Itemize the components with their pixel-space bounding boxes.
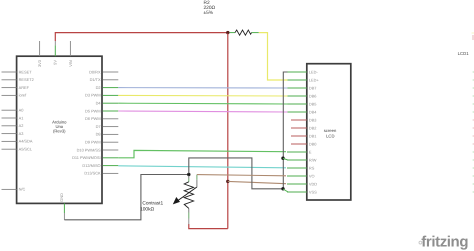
svg-text:E: E — [309, 149, 312, 154]
svg-text:DB7: DB7 — [309, 85, 317, 90]
svg-text:screen: screen — [324, 128, 337, 133]
wiper lead of Contrast1 up to VO wire — [196, 175, 198, 188]
transistor-style wiper arrow of Contrast1 — [173, 187, 197, 204]
wire: grey GND from pot top up/right/down to LCD VSS junction — [189, 158, 283, 189]
wire: short green link junction to R/W pin — [283, 158, 288, 160]
svg-text:AREF: AREF — [19, 85, 30, 90]
svg-text:fritzing: fritzing — [421, 234, 468, 251]
svg-text:D3 PWM: D3 PWM — [85, 93, 101, 98]
svg-text:D4: D4 — [96, 101, 102, 106]
svg-text:VSS: VSS — [309, 189, 317, 194]
pin D8 (Arduino right) — [96, 132, 119, 137]
wire: grey GND from Arduino GND pin to potentiometer top — [64, 175, 187, 220]
wire: green D4 to DB5 — [118, 102, 287, 105]
pin D2 (Arduino right) — [96, 85, 119, 90]
wire: yellow from R2 right terminal down to LCD LED+ — [259, 33, 288, 80]
node E: junction dot GND bus to VSS — [281, 187, 284, 190]
wire: short green link junction to VSS pin — [283, 189, 288, 192]
resistor Contrast1 zigzag body (potentiometer) — [184, 182, 193, 209]
svg-text:RESET2: RESET2 — [19, 77, 34, 82]
svg-text:DB5: DB5 — [309, 101, 317, 106]
svg-text:RESET: RESET — [19, 69, 33, 74]
pin A5/SCL (Arduino left, unconnected) — [2, 147, 33, 152]
pin D9 PWM (Arduino right) — [85, 140, 118, 145]
wire: red 5V from Arduino 5V pin up and right to R2 junction — [55, 33, 227, 41]
svg-text:Contrast1: Contrast1 — [142, 201, 163, 207]
value label R2 220&#937; &#177;5% — [204, 0, 216, 16]
wire: brown from red rail junction to LCD VDD — [228, 181, 286, 183]
svg-text:VIN: VIN — [68, 60, 73, 67]
pin RS (LCD left) — [287, 165, 315, 170]
svg-text:LCD1: LCD1 — [458, 51, 470, 56]
svg-text:D8: D8 — [96, 132, 101, 137]
svg-text:VDD: VDD — [309, 181, 317, 186]
pin VIN (Arduino top, unconnected) — [68, 41, 73, 67]
node D: junction dot GND bus to R/W — [281, 157, 284, 160]
svg-text:±5%: ±5% — [204, 10, 214, 16]
svg-text:D0/RX: D0/RX — [89, 69, 101, 74]
pin A4/SDA (Arduino left, unconnected) — [2, 139, 33, 144]
svg-text:D9 PWM: D9 PWM — [85, 140, 101, 145]
pin E (LCD left) — [287, 149, 312, 154]
svg-text:D6 PWM: D6 PWM — [85, 116, 101, 121]
pin D1/TX (Arduino right) — [90, 77, 119, 82]
node C: junction dot at potentiometer top terminal — [187, 173, 190, 176]
pin A1 (Arduino left, unconnected) — [2, 115, 24, 120]
pin D10 PWM/SS (Arduino right) — [77, 147, 119, 152]
pin A3 (Arduino left, unconnected) — [2, 131, 24, 136]
pin DB4 (LCD left) — [287, 109, 317, 114]
svg-text:LCD: LCD — [326, 134, 334, 139]
resistor Contrast1 bottom lead — [188, 208, 190, 224]
wire: green D11 with jog up to LCD E — [118, 150, 286, 157]
pin RESET2 (Arduino left, unconnected) — [2, 77, 34, 82]
resistor R2 leads (green pin ends) — [230, 32, 259, 34]
wire: yellow D3 to DB6 — [118, 94, 287, 97]
op-amp U1: Arduino Uno (Rev3) body — [17, 56, 102, 203]
svg-text:(Rev3): (Rev3) — [53, 128, 66, 133]
wire: blue D2 to DB7 — [118, 87, 287, 89]
svg-text:A0: A0 — [19, 108, 25, 113]
pin 3V3 (Arduino top, unconnected) — [37, 41, 42, 67]
svg-text:DB1: DB1 — [309, 133, 317, 138]
pin 5V (Arduino top, connected to red 5V net) — [53, 41, 58, 65]
pin N/C (Arduino left, unconnected) — [2, 187, 26, 192]
pin VSS (LCD left) — [287, 189, 317, 194]
pin D0/RX (Arduino right) — [89, 69, 118, 74]
wire: red 5V vertical rail down the middle — [227, 34, 229, 229]
pin DB0 (LCD left) — [291, 141, 317, 146]
svg-text:LED-: LED- — [309, 69, 319, 74]
svg-text:D13/SCK: D13/SCK — [84, 171, 101, 176]
wire: grey GND vertical LED- / R/W / VSS bus — [283, 72, 287, 189]
svg-text:DB6: DB6 — [309, 93, 317, 98]
svg-text:VO: VO — [309, 173, 315, 178]
pin DB1 (LCD left) — [291, 133, 316, 138]
svg-text:A1: A1 — [19, 115, 24, 120]
resistor R2 zigzag body — [235, 30, 252, 35]
wire: cyan D12 to LCD RS — [118, 166, 286, 168]
svg-text:D10 PWM/SS: D10 PWM/SS — [77, 147, 101, 152]
pin DB2 (LCD left) — [291, 125, 316, 130]
wire fragments of cropped LCD1 at right edge — [472, 33, 474, 192]
pin ioref (Arduino left, unconnected) — [2, 93, 28, 98]
pin DB6 (LCD left) — [287, 93, 316, 98]
pin DB5 (LCD left) — [287, 101, 316, 106]
wire: magenta D5 to DB4 — [118, 111, 287, 112]
svg-text:D12/MISO: D12/MISO — [82, 163, 100, 168]
svg-text:D2: D2 — [96, 85, 101, 90]
pin LED+ (LCD left) — [287, 77, 319, 82]
pin VO (LCD left) — [287, 173, 315, 178]
pin D12/MISO (Arduino right) — [82, 163, 118, 168]
wire: red bottom segment to potentiometer bottom terminal — [189, 224, 228, 229]
resistor Contrast1 top lead — [188, 176, 190, 182]
svg-text:DB4: DB4 — [309, 109, 317, 114]
pin R/W (LCD left) — [287, 157, 317, 162]
svg-text:A3: A3 — [19, 131, 24, 136]
pin RESET (Arduino left, unconnected) — [2, 69, 33, 74]
svg-text:3V3: 3V3 — [37, 60, 42, 67]
op-amp U2: screen LCD body — [307, 64, 351, 200]
node B: junction dot red rail to VDD wire — [226, 180, 229, 183]
pin A0 (Arduino left, unconnected) — [2, 108, 25, 113]
pin D6 PWM (Arduino right) — [85, 116, 118, 121]
svg-text:DB3: DB3 — [309, 117, 317, 122]
pin DB3 (LCD left) — [291, 117, 316, 122]
pin D4 (Arduino right) — [96, 101, 119, 106]
pin VDD (LCD left) — [287, 181, 317, 186]
svg-text:GND: GND — [59, 193, 64, 202]
svg-text:A5/SCL: A5/SCL — [19, 147, 33, 152]
svg-text:100kΩ: 100kΩ — [140, 206, 154, 212]
pin AREF (Arduino left, unconnected) — [2, 85, 30, 90]
svg-text:A2: A2 — [19, 123, 24, 128]
svg-text:DB0: DB0 — [309, 141, 317, 146]
svg-text:R/W: R/W — [309, 157, 317, 162]
pin D5 PWM (Arduino right) — [85, 108, 118, 113]
svg-text:D11 PWM/MOSI: D11 PWM/MOSI — [72, 155, 100, 160]
svg-text:D1/TX: D1/TX — [90, 77, 101, 82]
node A: junction dot 5V / R2 left terminal — [226, 31, 229, 34]
pin D3 PWM (Arduino right) — [85, 93, 118, 98]
svg-text:D7: D7 — [96, 124, 101, 129]
svg-text:DB2: DB2 — [309, 125, 317, 130]
pin D7 (Arduino right) — [96, 124, 119, 129]
svg-text:A4/SDA: A4/SDA — [19, 139, 33, 144]
pin A2 (Arduino left, unconnected) — [2, 123, 24, 128]
pin D11 PWM/MOSI (Arduino right) — [72, 155, 118, 160]
pin D13/SCK (Arduino right) — [84, 171, 118, 176]
node LCD1 label (component cropped off right edge) — [458, 51, 470, 56]
fritzing watermark — [419, 234, 468, 251]
svg-text:5V: 5V — [53, 60, 58, 65]
value label Contrast1 100k&#937; — [140, 201, 163, 213]
svg-text:N/C: N/C — [19, 187, 26, 192]
svg-text:D5 PWM: D5 PWM — [85, 108, 101, 113]
ground pin GND (Arduino bottom) — [59, 193, 64, 220]
svg-text:LED+: LED+ — [309, 77, 320, 82]
wire: brown from wiper to LCD VO — [197, 175, 286, 176]
svg-text:RS: RS — [309, 165, 315, 170]
svg-text:ioref: ioref — [19, 93, 27, 98]
pin LED- (LCD left) — [287, 69, 318, 74]
pin DB7 (LCD left) — [287, 85, 316, 90]
